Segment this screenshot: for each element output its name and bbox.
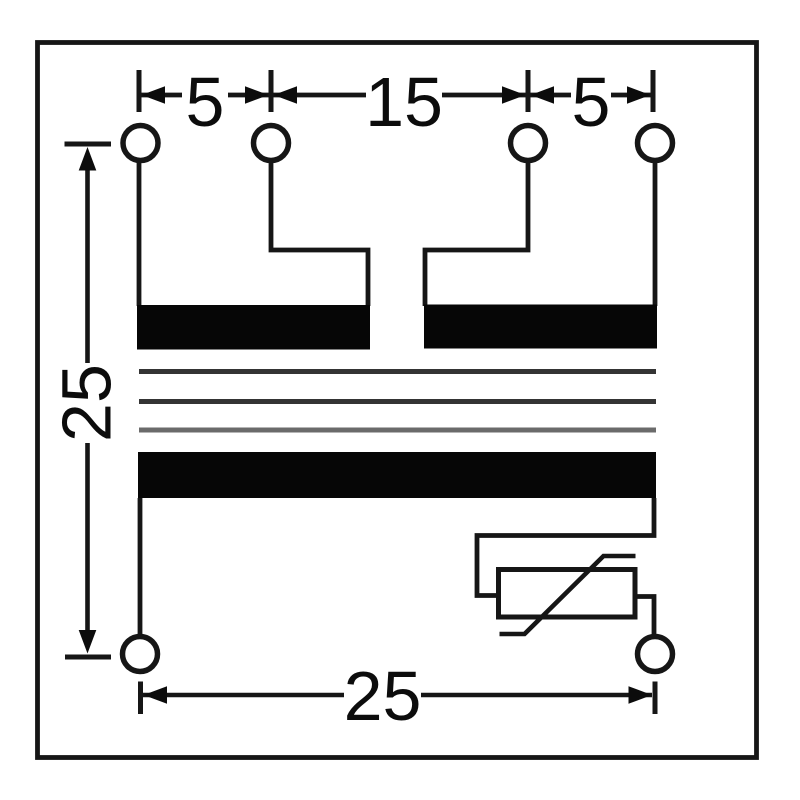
terminal pad P4 <box>638 126 673 161</box>
wire from P1 to left electrode bar <box>137 163 142 306</box>
thermistor RT1 diagonal stroke <box>500 556 636 634</box>
dimension tick T4 (x=653) <box>651 70 656 112</box>
svg-text:25: 25 <box>48 364 126 442</box>
svg-text:5: 5 <box>572 63 611 141</box>
wire from P2 (down, right, down) to left electrode bar <box>271 163 368 306</box>
wire from thermistor to pad P6 <box>635 597 654 635</box>
arrowhead left at bottom dimension <box>144 686 168 704</box>
arrowhead left at T3 <box>531 86 555 104</box>
dimension line segment 5 left <box>141 93 182 98</box>
terminal pad P1 <box>123 126 158 161</box>
heater layer line 1 <box>139 369 656 374</box>
thermistor RT1 body <box>499 570 636 618</box>
wire from bottom electrode right end to thermistor (down, left, down, right) <box>477 498 654 596</box>
bottom dimension tick right <box>653 682 658 715</box>
bottom dimension tick left <box>138 682 143 715</box>
dimension tick T3 (x=528) <box>526 70 531 112</box>
wire from P4 to right electrode bar <box>653 163 658 306</box>
left dimension line lower segment <box>85 443 90 633</box>
left dimension extension tick bottom <box>65 655 111 660</box>
bottom dimension line left segment <box>143 693 344 698</box>
heater layer line 3 <box>139 428 656 433</box>
arrowhead right at T3 <box>502 86 526 104</box>
left dimension extension tick top <box>65 142 112 147</box>
heater layer line 2 <box>139 399 656 404</box>
dimension line segment 5 right <box>530 93 571 98</box>
arrowhead down at bottom of left dimension <box>79 630 97 654</box>
terminal pad P3 <box>511 126 546 161</box>
arrowhead right at T4 <box>627 86 651 104</box>
svg-text:5: 5 <box>186 63 225 141</box>
dimension tick T1 (x=139) <box>137 70 142 112</box>
arrowhead left at T2 <box>274 86 298 104</box>
arrowhead right at bottom dimension <box>629 686 653 704</box>
arrowhead up at top of left dimension <box>79 147 97 171</box>
left dimension line upper segment <box>85 167 90 363</box>
bottom dimension line right segment <box>421 693 652 698</box>
terminal pad P6 (bottom right) <box>638 637 673 672</box>
dimension tick T2 (x=271) <box>269 70 274 112</box>
bottom electrode bar (black) <box>138 452 656 498</box>
terminal pad P5 (bottom left) <box>123 637 158 672</box>
svg-text:15: 15 <box>365 63 443 141</box>
svg-text:25: 25 <box>344 657 422 735</box>
wire from P3 (down, left, down) to right electrode bar <box>425 163 528 306</box>
arrowhead left at T1 <box>142 86 166 104</box>
arrowhead right at T2 <box>245 86 269 104</box>
terminal pad P2 <box>254 126 289 161</box>
dimension line segment 15 <box>273 93 366 98</box>
left electrode bar (black) <box>137 305 370 350</box>
wire from bottom electrode to pad P5 <box>138 498 143 635</box>
right electrode bar (black) <box>424 305 657 349</box>
